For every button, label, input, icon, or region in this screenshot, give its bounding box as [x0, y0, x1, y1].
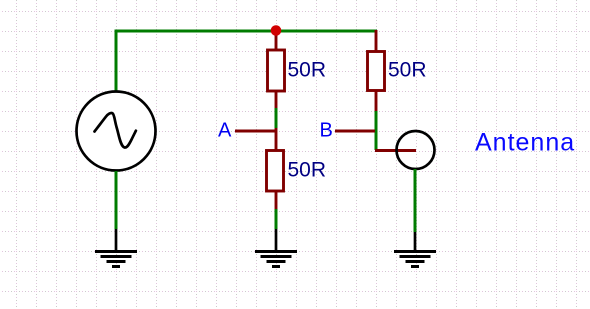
- resistor lead bottom (top-middle): [275, 91, 278, 108]
- wire: source bottom to ground: [115, 171, 118, 229]
- ground symbol (antenna): [394, 252, 436, 267]
- svg-text:A: A: [218, 120, 232, 142]
- resistor lead top (right resistor): [375, 30, 378, 52]
- resistor lead top (bottom resistor): [275, 128, 278, 151]
- resistor body 50R (right): [368, 52, 385, 91]
- node A terminal lead: [235, 130, 277, 133]
- svg-text:50R: 50R: [388, 59, 427, 82]
- resistor body 50R (bottom): [267, 151, 284, 192]
- wire: right resistor down to antenna corner: [375, 111, 378, 150]
- ground symbol (source): [95, 252, 137, 267]
- wire: antenna to ground: [414, 169, 417, 232]
- svg-text:50R: 50R: [288, 59, 327, 82]
- antenna lead (into circle center): [375, 149, 416, 152]
- ground lead (source): [115, 229, 118, 250]
- svg-text:B: B: [320, 120, 333, 142]
- node B terminal lead: [335, 130, 375, 133]
- wire: between resistors: [275, 108, 278, 128]
- resistor lead bottom (bottom resistor): [275, 191, 278, 209]
- junction node dot: [271, 25, 282, 36]
- resistor lead top (R top-middle): [275, 31, 278, 51]
- wire: top bus from source to right resistor: [116, 31, 377, 92]
- resistor lead bottom (right resistor): [375, 91, 378, 112]
- AC source sine squiggle: [95, 113, 136, 147]
- AC source V1 circle: [77, 92, 156, 171]
- ground symbol (divider): [255, 252, 297, 267]
- antenna circle: [397, 131, 435, 169]
- ground lead (antenna): [414, 232, 417, 250]
- svg-text:Antenna: Antenna: [475, 129, 575, 157]
- svg-text:50R: 50R: [288, 159, 327, 182]
- resistor body 50R (top-middle): [268, 50, 285, 91]
- wire: bottom resistor to ground: [275, 209, 278, 229]
- ground lead (divider): [275, 229, 278, 250]
